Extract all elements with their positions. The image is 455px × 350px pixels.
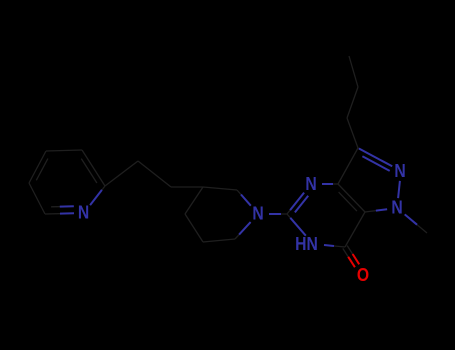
svg-text:N: N [78, 201, 89, 223]
svg-text:O: O [357, 264, 369, 286]
svg-text:N: N [394, 160, 405, 182]
carbonyl C7=O double bond [343, 248, 355, 267]
bond piperidine N - C5 pyrimidine [269, 213, 287, 215]
pyrazole C3=N2 double bond [358, 148, 392, 166]
svg-text:HN: HN [295, 233, 318, 255]
svg-text:N: N [252, 202, 263, 224]
pyrazole N2-N1 bond [398, 181, 400, 198]
N1-methyl bond [405, 214, 427, 233]
piperidine N-C6 bond [235, 222, 251, 239]
pyrimidine N4-C3a bond [322, 183, 338, 185]
chain bond CH2-CH2 [138, 161, 171, 187]
bond C7-C7a [345, 212, 365, 247]
svg-text:N: N [391, 196, 402, 218]
propyl bond CH2-CH2 [347, 87, 358, 118]
pyridine C5=C6 double bond [82, 150, 105, 186]
propyl bond CH2-CH3 [349, 56, 358, 87]
chain bond CH2-C3pip [171, 186, 203, 188]
pyridine C2=N1 double bond [45, 212, 74, 215]
pyridine C3=C4 double bond [29, 151, 46, 183]
fused C3a=C7a double bond [338, 184, 365, 212]
svg-text:N: N [305, 173, 316, 195]
pyrimidine C5=N4 double bond [287, 193, 304, 214]
pyrazole C3a-C3 bond [338, 148, 358, 184]
propyl bond C3-CH2 [347, 118, 358, 148]
pyridine C2-C3 bond [29, 183, 45, 214]
pyridine N1-C6 bond [90, 186, 105, 205]
pyrazole N1-C7a bond [365, 209, 387, 212]
pyrimidine C5-N6 bond [287, 214, 306, 236]
piperidine C3-C2 bond [203, 187, 237, 190]
chain bond C6py-CH2 [105, 161, 138, 186]
pyridine C4-C5 bond [46, 150, 82, 151]
piperidine C3-C4 bond [185, 187, 203, 214]
piperidine C5-C6 bond [203, 239, 235, 242]
pyrimidine N6-C7 bond [324, 245, 345, 247]
piperidine N-C2 bond [237, 190, 251, 206]
piperidine C4-C5 bond [185, 214, 203, 242]
